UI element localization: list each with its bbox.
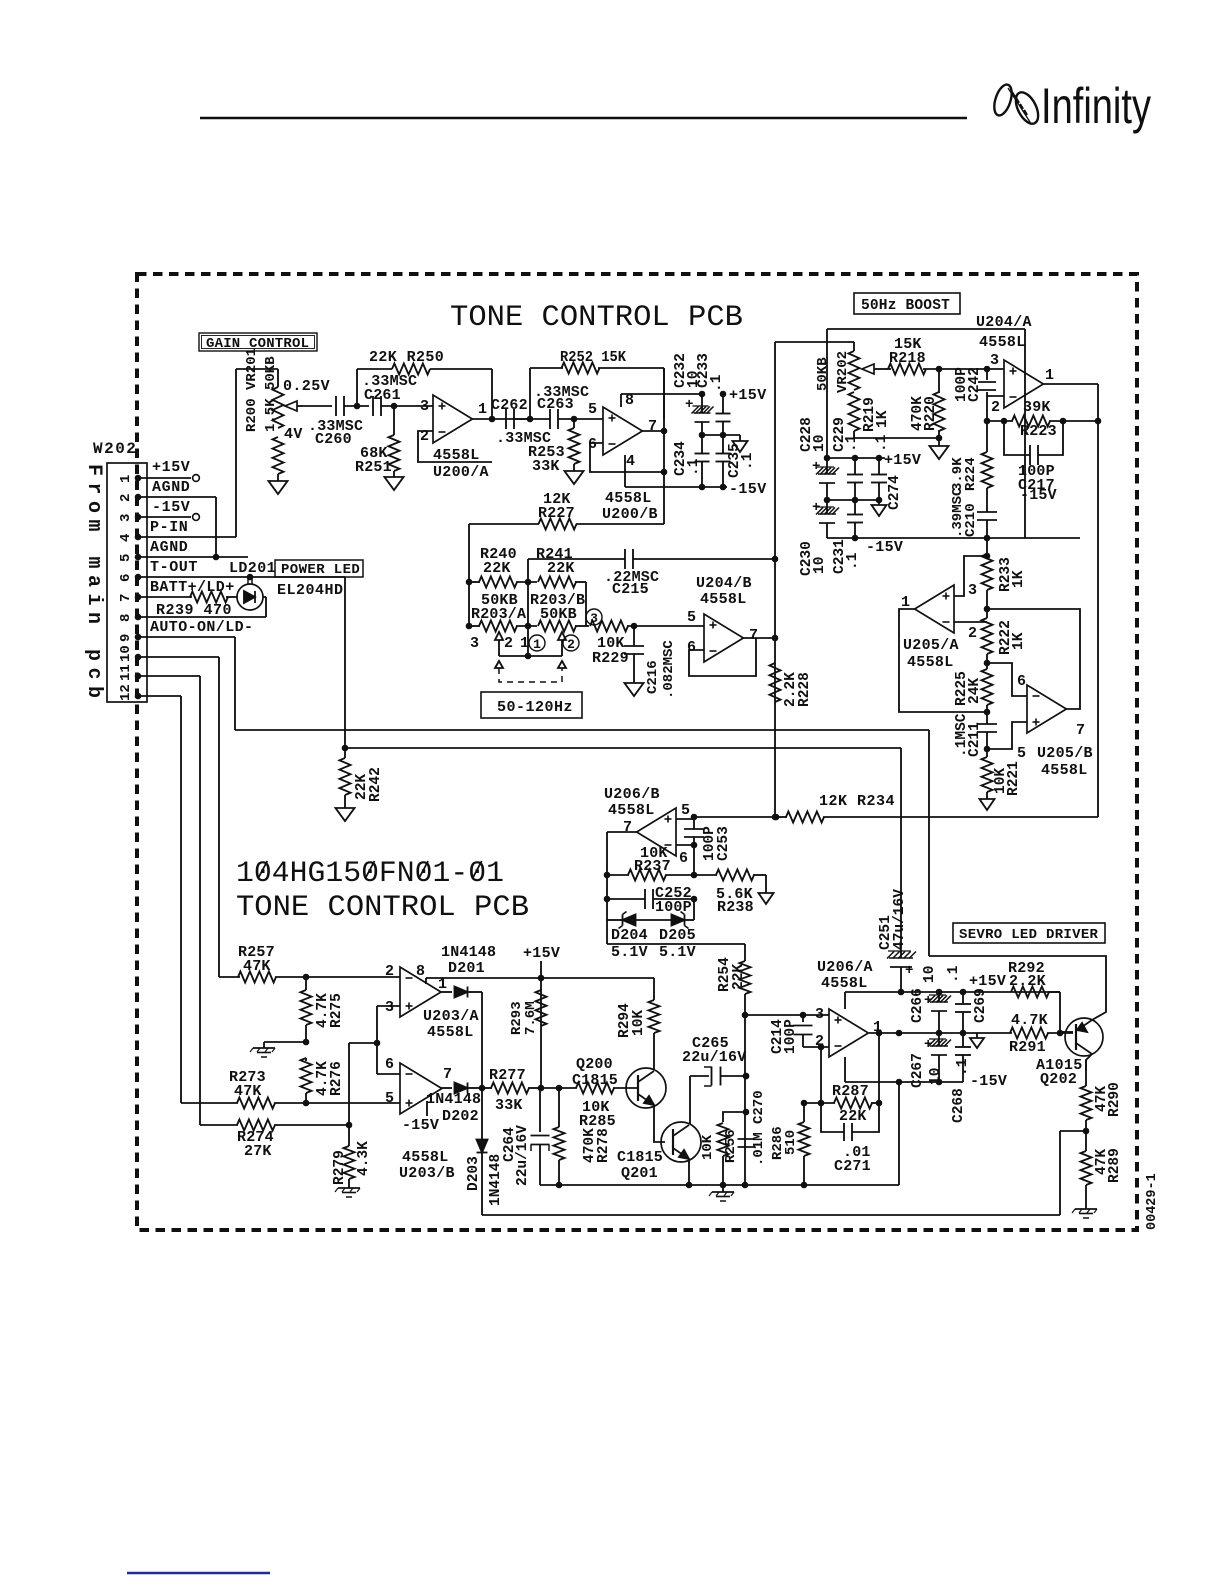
ground R200 — [269, 481, 288, 494]
capacitor C217 loop — [1004, 421, 1063, 504]
svg-text:C253: C253 — [716, 826, 732, 861]
capacitor C231 — [832, 500, 863, 574]
svg-text:VR202: VR202 — [835, 351, 851, 393]
svg-text:R275: R275 — [329, 993, 345, 1028]
svg-text:4V: 4V — [284, 426, 303, 443]
svg-text:C266: C266 — [910, 988, 926, 1023]
svg-text:22K: 22K — [483, 560, 511, 577]
wire C260-C261 — [344, 403, 369, 410]
op-amp U205/A — [901, 582, 977, 671]
svg-text:.082MSC: .082MSC — [661, 640, 677, 699]
svg-text:AUTO-ON/LD-: AUTO-ON/LD- — [150, 619, 253, 636]
capacitor C267 — [910, 1033, 951, 1088]
svg-text:10: 10 — [812, 557, 828, 574]
wire +15V column — [540, 961, 542, 1088]
svg-text:+15V: +15V — [884, 452, 921, 469]
svg-text:.1: .1 — [845, 552, 861, 570]
label C1815 Q201 — [617, 1149, 663, 1182]
svg-text:TONE CONTROL PCB: TONE CONTROL PCB — [236, 891, 529, 925]
schematic dashed border frame — [137, 274, 1137, 1230]
svg-text:0.25V: 0.25V — [283, 378, 330, 395]
svg-text:Q202: Q202 — [1040, 1071, 1077, 1088]
label From main pcb — [82, 464, 105, 705]
svg-text:6: 6 — [1017, 673, 1026, 690]
svg-text:1N4148: 1N4148 — [426, 1091, 481, 1108]
ground R238 — [759, 893, 774, 904]
capacitor C215 loop — [528, 549, 775, 598]
wire R227 to R240 column — [466, 524, 473, 626]
wire AUTO-ON run — [235, 730, 929, 956]
svg-text:C268: C268 — [951, 1088, 967, 1123]
diode D201 — [441, 944, 496, 998]
svg-text:3: 3 — [420, 398, 429, 415]
wire U200/B pin6 feedback — [590, 443, 667, 475]
capacitor C261 — [362, 373, 417, 416]
svg-text:R287: R287 — [832, 1083, 869, 1100]
gang coupling dashed — [495, 661, 566, 682]
ground mid earth — [250, 1048, 275, 1057]
svg-text:R221: R221 — [1006, 761, 1022, 796]
svg-text:C216: C216 — [645, 660, 661, 694]
footer blue rule — [127, 1572, 270, 1574]
svg-text:4558L: 4558L — [402, 1149, 449, 1166]
resistor R294 — [541, 978, 660, 1070]
wire U205/A pin3 — [954, 556, 987, 596]
wire R274 node up — [349, 1040, 380, 1125]
resistor R290 — [1081, 1060, 1124, 1131]
op-amp U206/A — [815, 1006, 882, 1057]
svg-text:50KB: 50KB — [540, 606, 577, 623]
wire U204/B output — [742, 635, 778, 642]
svg-text:R237: R237 — [634, 858, 671, 875]
capacitor C234 — [673, 435, 709, 487]
label 00429-1 — [1145, 1173, 1160, 1230]
wire R220 ground stub — [938, 438, 940, 446]
resistor R254 — [717, 957, 750, 1015]
wire mid row 50Hz — [824, 497, 883, 504]
wire C263 to U200/B — [558, 416, 603, 423]
svg-text:D202: D202 — [442, 1108, 479, 1125]
svg-text:.1: .1 — [946, 965, 962, 983]
wire bottom rail — [540, 1082, 899, 1188]
header rule line — [200, 117, 967, 119]
wire U206/B pin5 — [676, 814, 779, 821]
wire U206/A pin3 row — [745, 1012, 829, 1019]
svg-text:1: 1 — [478, 401, 487, 418]
ground mid row arrow — [733, 435, 748, 452]
svg-text:3: 3 — [385, 999, 394, 1016]
svg-text:.1: .1 — [740, 452, 756, 470]
node circled 3 — [586, 609, 602, 626]
svg-text:R278: R278 — [596, 1128, 612, 1163]
svg-text:50-120Hz: 50-120Hz — [497, 699, 573, 716]
op-amp U203/A — [385, 963, 479, 1041]
wire U205/A pin2 — [954, 621, 987, 623]
svg-text:4558L: 4558L — [427, 1024, 474, 1041]
op-amp U206/B — [604, 786, 690, 867]
svg-text:22K: 22K — [731, 964, 747, 990]
transistor Q200 — [626, 1068, 666, 1108]
svg-text:C242: C242 — [967, 367, 983, 402]
svg-text:1: 1 — [1045, 367, 1054, 384]
svg-text:3: 3 — [118, 514, 134, 522]
resistor R251 — [355, 406, 400, 477]
label +15V servo — [969, 973, 1006, 990]
wire signal column x775 — [772, 342, 779, 817]
wire U205/B pin6 — [987, 663, 1027, 696]
title 104HG150FN01-01 — [236, 857, 529, 925]
capacitor C262 — [491, 397, 551, 447]
op-amp U205/B — [1017, 673, 1093, 779]
capacitor C260 — [308, 396, 363, 448]
potentiometer VR201 — [244, 348, 302, 432]
svg-text:R203/A: R203/A — [471, 606, 526, 623]
svg-text:SEVRO LED DRIVER: SEVRO LED DRIVER — [959, 927, 1099, 943]
svg-text:5: 5 — [687, 609, 696, 626]
wire -15V row — [699, 484, 727, 491]
box SEVRO LED DRIVER — [953, 923, 1105, 943]
svg-text:5: 5 — [385, 1090, 394, 1107]
resistor R219 — [849, 392, 892, 432]
svg-text:4558L: 4558L — [608, 802, 655, 819]
svg-text:5: 5 — [1017, 745, 1026, 762]
resistor R289 — [1081, 1131, 1124, 1209]
ground R220 — [930, 446, 949, 459]
capacitor C229 — [832, 417, 863, 500]
resistor R276 — [301, 1058, 346, 1103]
svg-text:47K: 47K — [243, 958, 271, 975]
svg-text:R227: R227 — [538, 505, 575, 522]
wiper VR202 — [862, 364, 879, 374]
label -15V C235 — [729, 481, 767, 498]
wire Q202 collector — [1086, 1054, 1092, 1070]
svg-text:-15V: -15V — [1020, 487, 1057, 504]
transistor Q202 — [1065, 1018, 1103, 1056]
svg-text:R229: R229 — [592, 650, 629, 667]
svg-text:39K: 39K — [1023, 399, 1051, 416]
wire U205/B output feedback — [987, 609, 1080, 709]
wire pin4 P-IN to VR201 — [138, 369, 278, 537]
resistor R221 — [982, 746, 1023, 799]
svg-text:AGND: AGND — [150, 539, 188, 556]
capacitor C265 — [682, 1035, 749, 1086]
svg-text:U203/A: U203/A — [423, 1008, 479, 1025]
svg-text:1N4148: 1N4148 — [441, 944, 496, 961]
resistor R253 — [528, 419, 580, 475]
capacitor C271 loop — [821, 1103, 879, 1175]
ground R289 earth — [1072, 1209, 1097, 1218]
net P-IN pin4 — [150, 519, 188, 536]
svg-text:R251: R251 — [355, 459, 392, 476]
wire U203 input node — [376, 1006, 378, 1074]
svg-text:Q200: Q200 — [576, 1056, 613, 1073]
ground C216 — [625, 683, 644, 696]
svg-text:4558L: 4558L — [907, 654, 954, 671]
label U204/A — [976, 314, 1032, 351]
potentiometer R203/B — [525, 592, 589, 632]
wire pin6 T-OUT — [138, 577, 345, 748]
resistor R242 — [340, 748, 385, 808]
svg-text:R291: R291 — [1009, 1039, 1046, 1056]
svg-text:+15V: +15V — [523, 945, 560, 962]
resistor R239 — [156, 592, 232, 620]
resistor R218 — [879, 336, 1004, 375]
svg-text:00429-1: 00429-1 — [1145, 1173, 1160, 1230]
wire U205/B pin5 — [987, 722, 1027, 749]
svg-text:1: 1 — [533, 637, 541, 652]
connector W202 pins 1-12 — [118, 475, 141, 701]
svg-text:.1: .1 — [955, 1058, 971, 1076]
svg-text:+15V: +15V — [729, 387, 767, 404]
resistor R238 — [694, 870, 766, 917]
svg-text:P-IN: P-IN — [150, 519, 188, 536]
svg-text:Infinity: Infinity — [1041, 78, 1151, 134]
zener D205 — [659, 899, 696, 961]
wire U200/A output — [471, 416, 530, 423]
svg-text:5.1V: 5.1V — [611, 944, 648, 961]
svg-text:R218: R218 — [889, 350, 926, 367]
wiper R203/A — [470, 632, 529, 656]
wire U206/A pin2 row — [803, 1044, 829, 1103]
svg-text:22K: 22K — [547, 560, 575, 577]
resistor R278 — [554, 1088, 613, 1185]
svg-text:7: 7 — [623, 819, 632, 836]
svg-text:2: 2 — [567, 637, 575, 652]
svg-text:22u/16V: 22u/16V — [515, 1125, 531, 1186]
svg-text:6: 6 — [385, 1056, 394, 1073]
connector W202 label — [93, 440, 137, 458]
wiper R203/B — [558, 632, 566, 656]
svg-text:R200 VR201: R200 VR201 — [244, 348, 260, 432]
wire U203/B pin4 -15V — [426, 1101, 428, 1116]
op-amp U204/B — [687, 575, 758, 662]
svg-text:R228: R228 — [797, 672, 813, 707]
resistor R292 — [1008, 960, 1060, 1032]
wire Q202 base — [1060, 1031, 1073, 1033]
label 0.25V — [283, 378, 330, 395]
svg-text:AGND: AGND — [152, 479, 190, 496]
wire U200/B pin8 to +15V — [621, 391, 726, 407]
capacitor C268 — [951, 1033, 971, 1123]
svg-text:3: 3 — [470, 635, 479, 652]
wire U200/A pin2 feedback — [418, 431, 492, 462]
capacitor C242 — [954, 366, 996, 421]
svg-text:+: + — [812, 459, 820, 475]
svg-text:R224: R224 — [963, 457, 979, 491]
resistor R234 — [772, 793, 1098, 823]
wire Q202 emitter up — [929, 956, 1106, 1020]
svg-text:Q201: Q201 — [621, 1165, 658, 1182]
svg-text:U200/B: U200/B — [602, 506, 658, 523]
ground R279 earth — [335, 1188, 360, 1197]
svg-text:.1: .1 — [686, 458, 702, 476]
wire C261 to U200/A — [381, 403, 433, 410]
resistor R286 — [770, 1100, 810, 1185]
wire R239 to LD201 — [226, 596, 237, 598]
capacitor C210 — [950, 487, 997, 538]
svg-text:7: 7 — [443, 1066, 452, 1083]
svg-text:T-OUT: T-OUT — [150, 559, 198, 576]
svg-text:7.6M: 7.6M — [523, 1001, 539, 1035]
svg-text:R252 15K: R252 15K — [560, 349, 626, 366]
resistor R257 — [219, 944, 400, 983]
wire pin5 AGND — [138, 554, 248, 561]
wire pin10 — [138, 657, 219, 977]
label A1015 Q202 — [1036, 1057, 1083, 1088]
resistor R277 — [482, 1067, 544, 1114]
diode D202 — [426, 1083, 482, 1126]
wire pin11 — [138, 676, 200, 1125]
ground C269 arrow — [970, 1033, 984, 1048]
node circled 2 — [563, 635, 579, 652]
svg-text:D203: D203 — [466, 1156, 482, 1191]
resistor R220 — [910, 366, 944, 438]
label +15V 50Hz — [884, 452, 921, 469]
wire LD201 cathode to pin8 — [138, 597, 266, 617]
svg-text:1.5K 50KB: 1.5K 50KB — [263, 356, 279, 432]
svg-text:+: + — [812, 500, 820, 516]
wire R241 to R203/B — [585, 582, 587, 626]
wire Q200 emitter to Q201 — [654, 1105, 665, 1142]
net -15V pin3 — [138, 499, 199, 520]
svg-text:.1: .1 — [874, 434, 890, 452]
wire -15V rail servo — [845, 1079, 963, 1086]
svg-text:R223: R223 — [1020, 423, 1057, 440]
svg-text:R238: R238 — [717, 899, 754, 916]
capacitor C214 — [770, 1015, 812, 1054]
Infinity logo mark — [991, 82, 1043, 127]
wire bottom run to Q202 divider — [482, 1214, 1060, 1216]
svg-text:R285: R285 — [579, 1113, 616, 1130]
svg-text:7: 7 — [1076, 722, 1085, 739]
svg-text:8: 8 — [416, 963, 425, 980]
op-amp U200/B — [588, 392, 658, 523]
resistor R223 feedback — [984, 399, 1102, 440]
svg-text:4558L: 4558L — [700, 591, 747, 608]
wire U203/A pin8 +15V — [426, 975, 544, 984]
label +15V C233 — [729, 387, 767, 404]
svg-text:C211: C211 — [967, 722, 983, 757]
svg-text:C263: C263 — [537, 396, 574, 413]
capacitor C233 — [696, 353, 730, 435]
svg-text:R289: R289 — [1107, 1148, 1123, 1183]
svg-text:47u/16V: 47u/16V — [892, 889, 908, 950]
svg-text:33K: 33K — [532, 458, 560, 475]
wire zener row to R254 — [607, 944, 745, 961]
svg-text:4558L: 4558L — [821, 975, 868, 992]
zener D204 — [607, 912, 672, 962]
label -15V servo — [970, 1073, 1007, 1090]
resistor R293 — [509, 990, 547, 1035]
svg-text:22K R250: 22K R250 — [369, 349, 444, 366]
svg-text:EL204HD: EL204HD — [277, 582, 344, 599]
capacitor C274 — [871, 434, 903, 510]
svg-text:4558L: 4558L — [979, 334, 1026, 351]
svg-text:R256: R256 — [723, 1129, 739, 1163]
svg-text:C269: C269 — [973, 988, 989, 1023]
svg-text:D205: D205 — [659, 927, 696, 944]
svg-text:22K: 22K — [839, 1108, 867, 1125]
wire diode cathode column — [479, 992, 486, 1215]
svg-text:2: 2 — [118, 494, 134, 502]
label EL204HD — [277, 582, 344, 599]
wire R275-R276 mid — [264, 1039, 309, 1048]
wire R219 bottom — [854, 431, 942, 441]
resistor R256 — [700, 1109, 749, 1189]
wire -15V rail 50Hz — [827, 535, 1080, 542]
svg-text:5: 5 — [118, 554, 134, 562]
svg-text:U203/B: U203/B — [399, 1165, 455, 1182]
svg-text:R290: R290 — [1107, 1082, 1123, 1117]
svg-text:2.2K: 2.2K — [1009, 973, 1046, 990]
wire U200/B pin4 to -15V — [625, 455, 702, 487]
svg-text:C1815: C1815 — [617, 1149, 663, 1166]
svg-text:33K: 33K — [495, 1097, 523, 1114]
label -15V 50Hz — [866, 539, 903, 556]
svg-text:12K R234: 12K R234 — [819, 793, 895, 810]
box 50-120Hz — [481, 692, 582, 718]
capacitor C211 — [954, 712, 997, 757]
svg-text:W202: W202 — [93, 440, 137, 458]
svg-text:24K: 24K — [967, 678, 983, 704]
net BATT+/LD+ pin7 — [150, 579, 235, 596]
wire U203/B pin6 — [377, 1073, 400, 1075]
svg-text:7: 7 — [118, 594, 134, 602]
svg-text:R277: R277 — [489, 1067, 526, 1084]
svg-text:-15V: -15V — [402, 1117, 439, 1134]
svg-text:U205/B: U205/B — [1037, 745, 1093, 762]
wire U206/A pin8 — [844, 992, 846, 1009]
capacitor C216 — [624, 626, 677, 699]
wire U204/A output — [1043, 384, 1098, 817]
resistor R228 — [770, 663, 814, 707]
resistor R222 — [982, 606, 1028, 663]
svg-text:4: 4 — [626, 453, 635, 470]
connector W202 body — [107, 463, 147, 702]
svg-text:50Hz BOOST: 50Hz BOOST — [861, 298, 950, 314]
op-amp U203/B — [385, 1056, 455, 1182]
svg-text:2: 2 — [968, 625, 977, 642]
wire pin7 — [138, 596, 192, 598]
capacitor C269 — [946, 965, 989, 1032]
svg-text:4: 4 — [118, 534, 134, 542]
svg-text:3: 3 — [990, 352, 999, 369]
svg-text:POWER LED: POWER LED — [281, 562, 360, 578]
resistor R274 — [200, 1120, 352, 1161]
resistor R291 — [1009, 1012, 1073, 1056]
svg-text:10K: 10K — [631, 1010, 647, 1036]
wire U206/B pin6 — [676, 842, 697, 875]
resistor R200 — [273, 437, 284, 474]
svg-text:100P: 100P — [783, 1019, 799, 1054]
svg-text:+: + — [685, 397, 693, 413]
wire U206/A output row — [869, 1030, 1012, 1037]
capacitor C252 — [604, 885, 698, 916]
svg-text:C274: C274 — [887, 475, 903, 510]
svg-text:U200/A: U200/A — [433, 464, 489, 481]
capacitor C264 — [502, 1088, 549, 1186]
box POWER LED — [275, 560, 363, 578]
net +15V pin1 — [138, 459, 199, 481]
svg-text:10K: 10K — [700, 1134, 716, 1160]
diode D203 — [466, 1140, 504, 1207]
svg-text:-15V: -15V — [866, 539, 903, 556]
net AGND pin5 — [150, 539, 188, 556]
wire Q201 emitter — [686, 1159, 693, 1188]
wire Q201 collector — [689, 1076, 691, 1124]
svg-text:.1: .1 — [844, 434, 860, 452]
svg-text:4.3K: 4.3K — [356, 1141, 372, 1176]
